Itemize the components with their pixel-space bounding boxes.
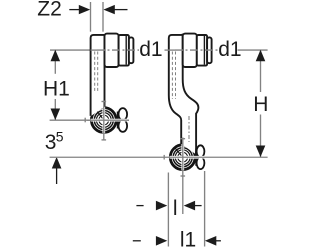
H1 bottom extension / left circle horizontal center line	[50, 119, 129, 121]
dimension H1 label	[43, 78, 70, 101]
label d1 right	[218, 38, 241, 61]
right fitting socket end bead S4	[207, 37, 212, 63]
dimension Z2 label	[37, 0, 62, 21]
dimension l arrows	[136, 201, 201, 211]
left fitting pipe fill	[91, 35, 105, 117]
label d1 left	[139, 38, 162, 61]
svg-text:H1: H1	[43, 78, 70, 101]
dimension Z2 arrows	[69, 5, 127, 14]
dimension line y=49.8 left extension	[50, 49, 91, 51]
right lower pipe center line	[188, 116, 190, 142]
right circle crosshair channels	[170, 144, 206, 170]
dimension H label	[253, 93, 268, 116]
baseline y=157 extension line (3.5 / H bottom / right circle axis)	[50, 156, 268, 158]
left fitting socket section S2	[105, 34, 119, 67]
dimension l1 label	[180, 229, 196, 250]
svg-text:l1: l1	[180, 229, 196, 250]
dimension l label	[173, 197, 178, 220]
left fitting hidden dashes	[95, 52, 98, 93]
svg-text:5: 5	[56, 128, 64, 144]
right fitting center line d1	[165, 49, 219, 51]
d1 right to H extension line	[238, 49, 268, 51]
dimension H1 line and arrows	[51, 50, 61, 120]
dimension 3.5 label	[45, 128, 64, 153]
left fitting socket section S3	[119, 35, 129, 66]
dimension 3.5 arrow	[52, 157, 62, 184]
svg-text:d1: d1	[218, 38, 241, 61]
right ear (flange side lobes)	[196, 145, 204, 169]
right circle vertical center line / l extension	[164, 138, 185, 215]
svg-text:3: 3	[45, 131, 57, 154]
dimension l1 arrows	[133, 236, 221, 246]
left circle rings (outlet)	[91, 108, 116, 133]
right fitting socket section S3	[197, 35, 207, 66]
left fitting pipe edges	[91, 35, 105, 116]
right fitting hidden dashes	[172, 52, 175, 100]
right fitting socket section S2	[183, 34, 197, 67]
left circle vertical center line	[85, 100, 129, 140]
dimension H line and arrows	[256, 50, 266, 157]
svg-text:H: H	[253, 93, 268, 116]
right pipe S-bend fill	[169, 35, 199, 155]
left fitting center line d1	[91, 49, 140, 51]
left ear (flange side lobes)	[118, 108, 127, 132]
svg-text:d1: d1	[139, 38, 162, 61]
right pipe white overlay over rings	[182, 115, 195, 154]
right circle rings (outlet)	[170, 145, 195, 170]
svg-text:l: l	[173, 197, 178, 220]
left circle crosshair channels	[91, 107, 128, 133]
left pipe white overlay over rings	[91, 36, 105, 116]
left fitting socket end bead S4	[129, 37, 134, 63]
l/l1 extension lines	[168, 171, 204, 247]
dimension Z2 extension lines	[91, 2, 104, 32]
right pipe S-bend edges	[169, 34, 199, 154]
svg-text:Z2: Z2	[37, 0, 62, 21]
